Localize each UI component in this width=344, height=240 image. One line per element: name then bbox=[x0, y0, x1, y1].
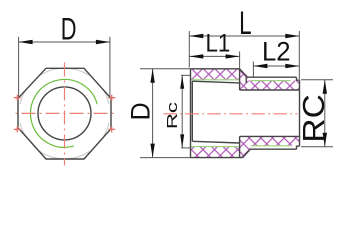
male bore top bbox=[240, 89, 300, 91]
extension line right bbox=[109, 37, 111, 98]
arrow right bbox=[285, 64, 299, 68]
svg-text:D: D bbox=[124, 102, 155, 120]
svg-text:L: L bbox=[239, 5, 251, 41]
tick top bbox=[181, 74, 190, 76]
hatch junction top bbox=[240, 69, 248, 90]
extension left bbox=[188, 31, 190, 68]
arrow down bbox=[150, 144, 154, 158]
tick bottom bbox=[181, 147, 190, 149]
hex bottom edge bbox=[191, 157, 243, 159]
thread line male top (green) bbox=[251, 80, 291, 82]
arrow down bbox=[180, 134, 184, 148]
svg-text:L1: L1 bbox=[205, 30, 230, 59]
D dimension (left view) bbox=[19, 37, 110, 98]
dimension line bbox=[19, 41, 110, 43]
D dimension (section, left side) bbox=[140, 69, 191, 158]
thread circle (green arc, internal thread major dia) bbox=[31, 79, 98, 147]
male OD bottom bbox=[250, 148, 296, 150]
arrow right bbox=[285, 34, 299, 38]
centerline vertical bbox=[64, 63, 66, 166]
arrow left bbox=[19, 40, 33, 44]
arrow left bbox=[189, 54, 203, 58]
arrow up bbox=[323, 80, 327, 94]
male OD top bbox=[248, 76, 297, 78]
chamfer circle (faint tangent arcs) bbox=[20, 68, 109, 159]
female bore bottom (tapered) bbox=[192, 141, 239, 143]
RC dimension (right side) bbox=[301, 80, 333, 147]
end step bottom bbox=[297, 146, 300, 149]
extension right (L1) bbox=[239, 52, 241, 69]
dimension line bbox=[181, 75, 183, 148]
hatch male bottom bbox=[250, 136, 299, 145]
arrow up bbox=[180, 75, 184, 89]
chamfer bottom bbox=[243, 149, 251, 157]
corner cross bottom-left bbox=[14, 126, 21, 132]
dimension line bbox=[189, 55, 239, 57]
arrow left bbox=[253, 64, 267, 68]
left face bbox=[190, 69, 192, 158]
svg-text:D: D bbox=[61, 11, 77, 46]
bore chamfer edge at entrance bbox=[191, 81, 193, 141]
corner cross top-left bbox=[14, 95, 21, 101]
junction vertical top bbox=[239, 69, 241, 90]
arrow right bbox=[226, 54, 240, 58]
male bore bottom bbox=[240, 135, 300, 137]
tick bottom bbox=[301, 146, 333, 148]
extension line left bbox=[18, 37, 20, 98]
arrow up bbox=[150, 69, 154, 83]
hatch female top bbox=[191, 69, 240, 80]
svg-text:L2: L2 bbox=[262, 36, 291, 67]
tick top bbox=[301, 79, 333, 81]
hatch female bottom bbox=[191, 147, 240, 158]
L dimension bbox=[189, 31, 299, 80]
dimension line bbox=[189, 35, 299, 37]
chamfer top bbox=[240, 69, 248, 77]
corner cross top-right bbox=[108, 95, 115, 101]
end step top bbox=[297, 77, 300, 80]
corner cross bottom-right bbox=[108, 126, 115, 132]
extension top bbox=[140, 68, 191, 70]
thread runout edge top bbox=[245, 77, 247, 83]
female bore top (tapered) bbox=[192, 81, 239, 83]
svg-text:Rc: Rc bbox=[164, 102, 180, 129]
arrow left bbox=[189, 34, 203, 38]
dimension line bbox=[253, 65, 299, 67]
thread line female bottom (green) bbox=[191, 146, 240, 148]
arrow right bbox=[96, 40, 110, 44]
hex top edge bbox=[191, 68, 240, 70]
hex outline (octagonal silhouette with chamfered corners) bbox=[18, 68, 112, 159]
Rc dimension (section, inner left) bbox=[181, 75, 190, 148]
extension left (L2) bbox=[252, 62, 254, 77]
junction vertical bottom bbox=[239, 136, 241, 157]
L2 dimension bbox=[253, 62, 299, 77]
dimension line bbox=[152, 69, 154, 158]
centerline (section) bbox=[163, 113, 298, 115]
right face bbox=[299, 80, 301, 146]
svg-text:RC: RC bbox=[296, 94, 331, 142]
section outline bbox=[191, 69, 300, 158]
centerline horizontal bbox=[12, 112, 116, 114]
extension right bbox=[298, 31, 300, 80]
extension bottom bbox=[140, 157, 191, 159]
L1 dimension bbox=[189, 52, 239, 69]
dimension line bbox=[324, 80, 326, 147]
hatch junction bottom bbox=[240, 136, 251, 157]
bore circle bbox=[38, 87, 91, 140]
arrow down bbox=[323, 133, 327, 147]
thread line female top (green) bbox=[191, 79, 240, 81]
hatch male top bbox=[248, 81, 300, 90]
thread line male bottom (green) bbox=[251, 145, 291, 147]
